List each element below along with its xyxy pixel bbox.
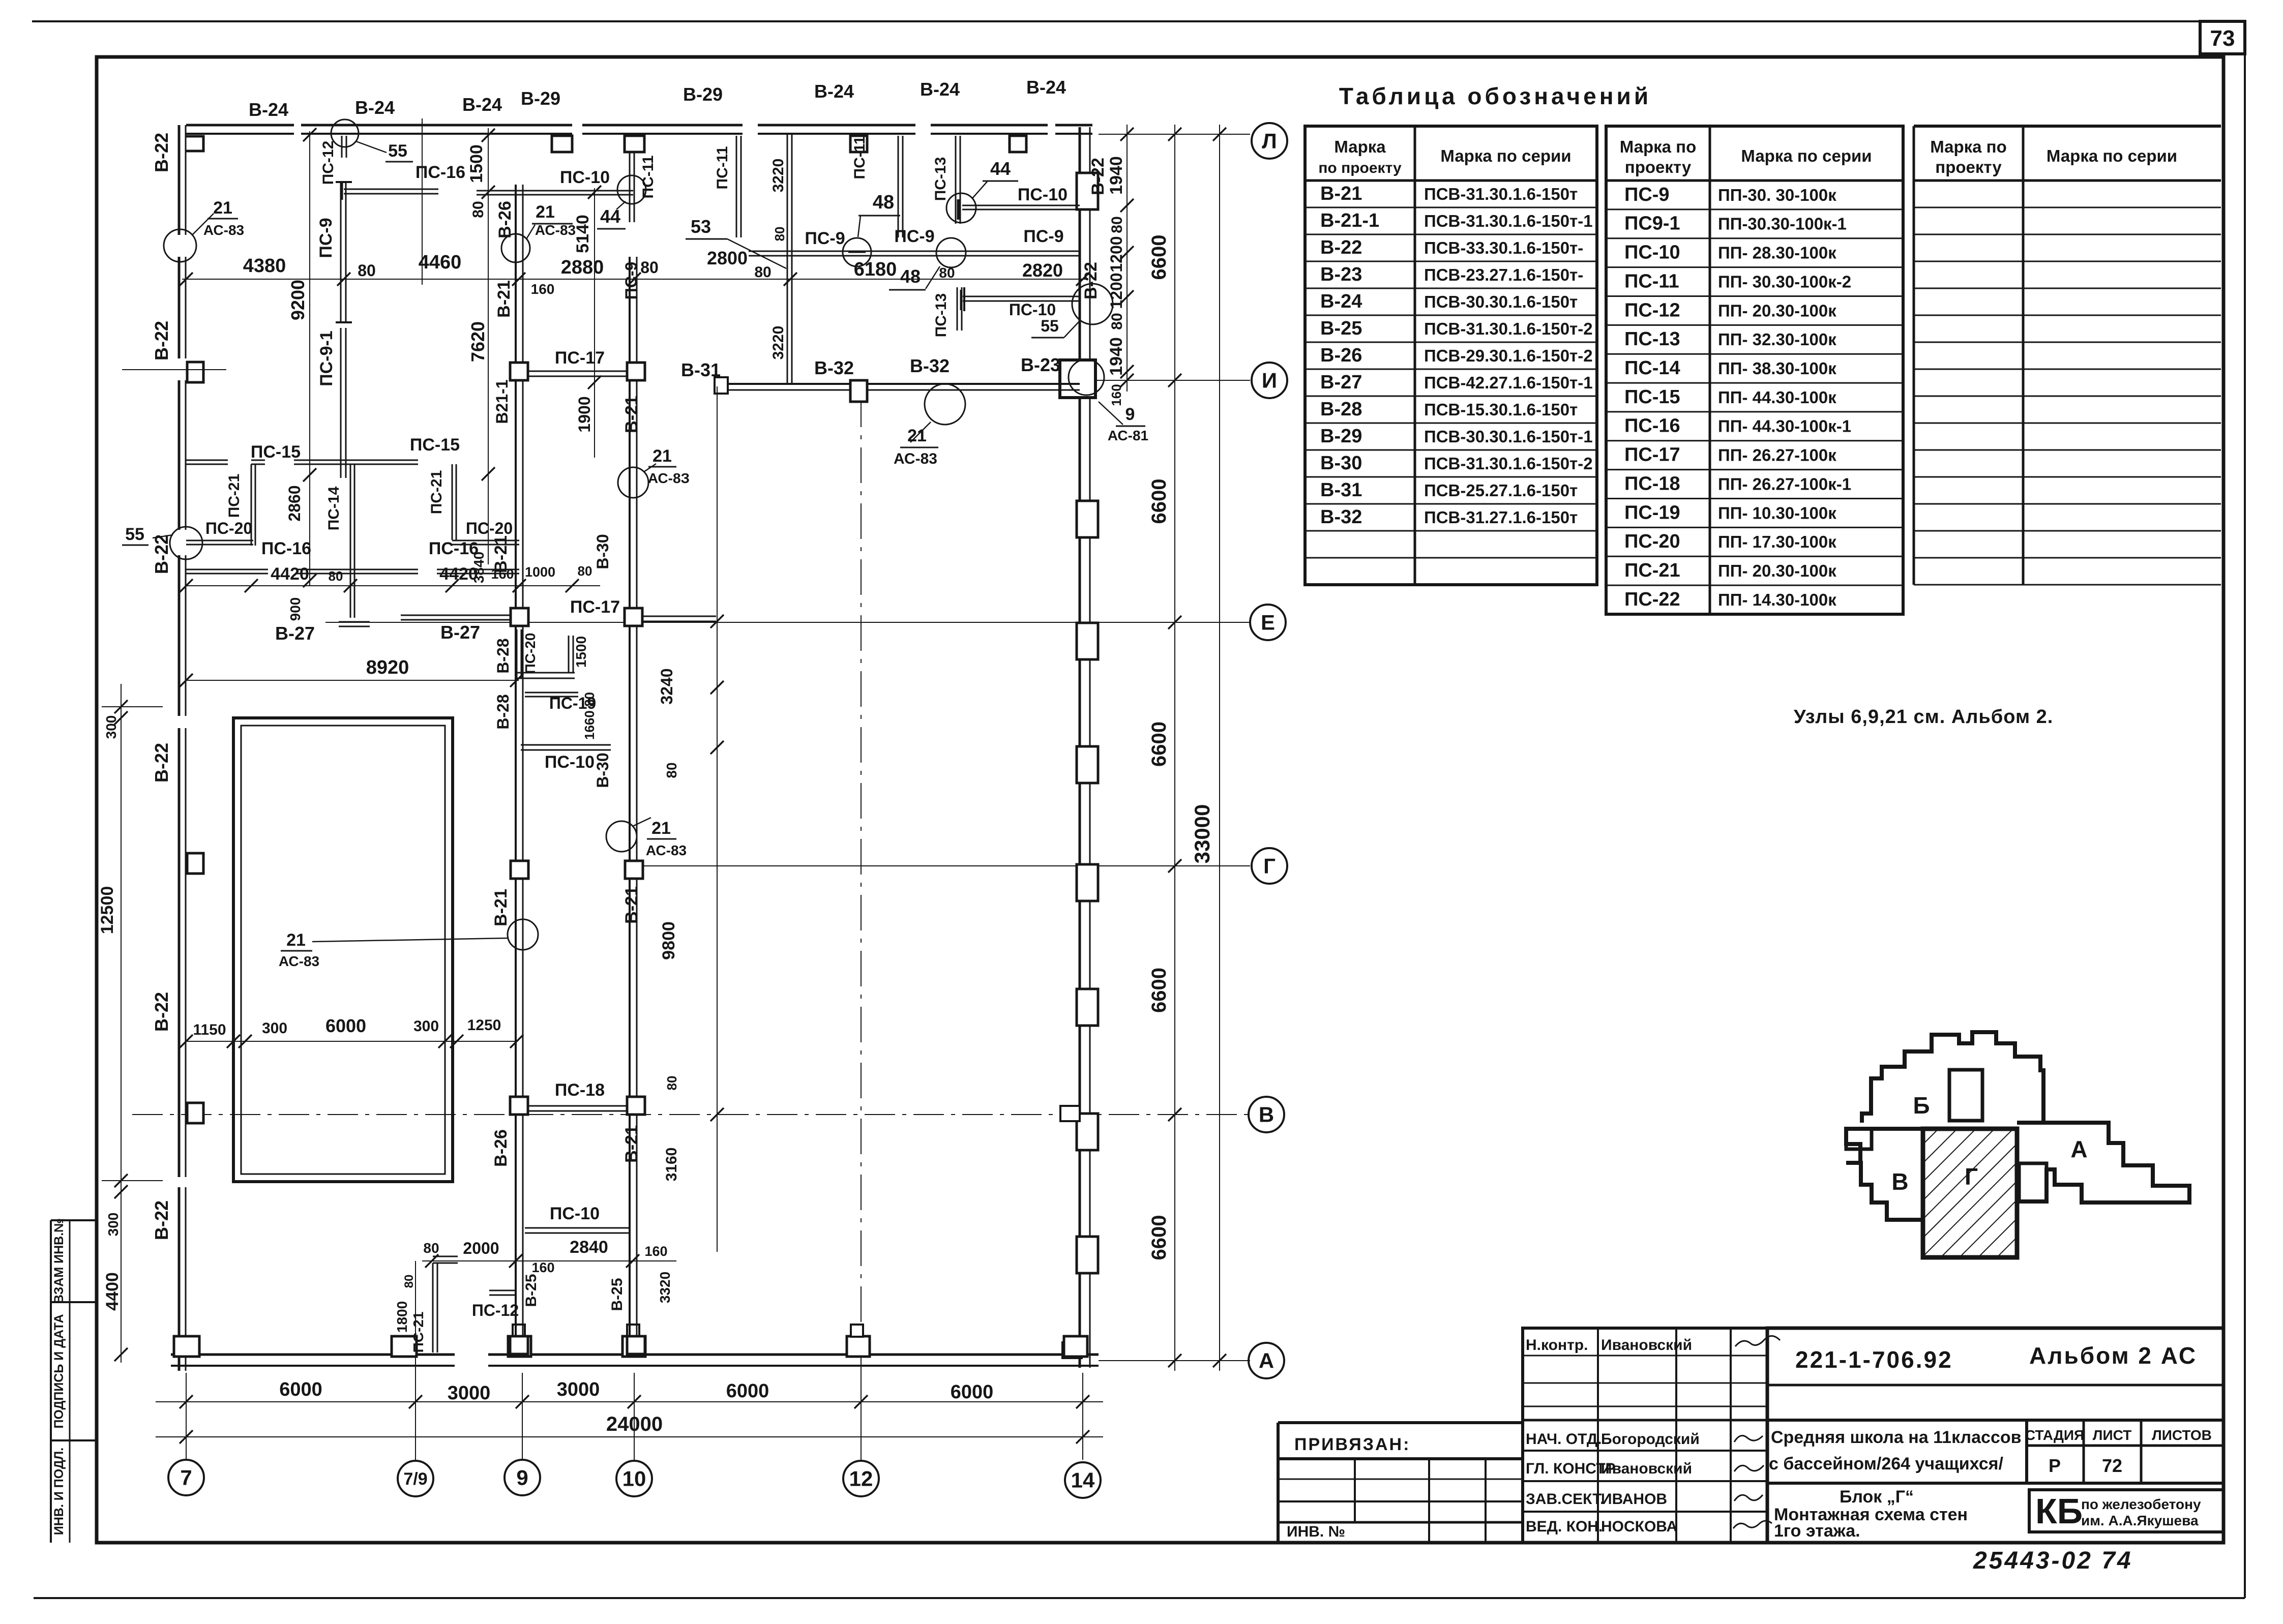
svg-text:В-22: В-22: [151, 1200, 172, 1240]
axis line V: [132, 1114, 1250, 1115]
svg-text:900: 900: [287, 597, 303, 621]
svg-text:ПСВ-33.30.1.6-150т-: ПСВ-33.30.1.6-150т-: [1424, 238, 1583, 257]
svg-text:ПП-30. 30-100к: ПП-30. 30-100к: [1718, 186, 1836, 204]
svg-text:24000: 24000: [606, 1413, 663, 1435]
pier interior: [627, 1097, 645, 1115]
pier on right wall: [1077, 501, 1098, 537]
svg-text:1800: 1800: [394, 1301, 410, 1333]
svg-text:А: А: [1259, 1349, 1274, 1373]
svg-text:ПСВ-29.30.1.6-150т-2: ПСВ-29.30.1.6-150т-2: [1424, 346, 1593, 365]
pier interior: [625, 861, 643, 879]
svg-text:АС-81: АС-81: [1108, 428, 1148, 443]
svg-text:ПП-30.30-100к-1: ПП-30.30-100к-1: [1718, 215, 1847, 233]
1500/7620 dim x=960: [488, 128, 489, 564]
svg-text:ПСВ-31.30.1.6-150т: ПСВ-31.30.1.6-150т: [1424, 185, 1578, 203]
svg-text:80: 80: [664, 762, 679, 778]
svg-text:4420: 4420: [271, 564, 309, 584]
pier under top wall: [1010, 136, 1026, 152]
detail circle 48 a: [843, 238, 871, 266]
svg-text:В-21: В-21: [491, 889, 511, 926]
PS-16 lintel top: [344, 189, 438, 190]
svg-text:300: 300: [262, 1020, 287, 1037]
svg-text:2860: 2860: [285, 485, 304, 521]
svg-text:Г: Г: [1965, 1163, 1978, 1190]
svg-text:В-22: В-22: [151, 534, 172, 574]
svg-text:ПСВ-31.30.1.6-150т-1: ПСВ-31.30.1.6-150т-1: [1424, 212, 1593, 230]
svg-text:В-21: В-21: [622, 1125, 641, 1163]
svg-text:80: 80: [1109, 216, 1125, 233]
wall B-31/B-32/B-23 on axis I: [715, 383, 1080, 385]
lintel PS-17 at I: [528, 371, 627, 372]
lintel PS-10 low: [525, 1227, 631, 1229]
svg-text:Л: Л: [1262, 129, 1277, 153]
svg-text:ПС-15: ПС-15: [410, 435, 460, 455]
bottom dim line 6000s: [156, 1401, 1103, 1402]
PS-11 stubs: [736, 136, 737, 237]
svg-text:В-28: В-28: [494, 694, 512, 729]
outer border bottom: [34, 1597, 2245, 1599]
pier on right wall: [1077, 989, 1098, 1026]
svg-text:12500: 12500: [98, 886, 117, 935]
svg-text:48: 48: [873, 192, 894, 213]
svg-text:1200: 1200: [1107, 236, 1125, 272]
svg-text:по проекту: по проекту: [1318, 160, 1402, 176]
svg-text:ПС-10: ПС-10: [1018, 185, 1068, 204]
svg-text:В-21-1: В-21-1: [1320, 210, 1379, 231]
PS-9 wall: [340, 182, 342, 322]
PS-16 lintels row 2: [186, 569, 268, 570]
svg-text:80: 80: [772, 227, 787, 242]
svg-text:ПС-13: ПС-13: [933, 293, 950, 338]
big pier right wall at I: [1060, 360, 1095, 398]
svg-text:ПС-12: ПС-12: [472, 1301, 519, 1319]
svg-text:9: 9: [516, 1466, 528, 1490]
axis line 7/9 vert: [415, 1261, 416, 1373]
svg-text:В-25: В-25: [1320, 318, 1362, 339]
svg-text:7: 7: [180, 1466, 192, 1490]
axis circle G: [1252, 848, 1287, 884]
svg-text:В-24: В-24: [814, 81, 854, 102]
svg-text:ПС-10: ПС-10: [550, 1204, 600, 1223]
svg-text:В-21: В-21: [622, 396, 641, 433]
svg-text:ПС-9: ПС-9: [1624, 184, 1670, 205]
axis leader lines bottom: [186, 1373, 187, 1460]
svg-text:В-26: В-26: [491, 1129, 511, 1167]
svg-text:ИНВ. №: ИНВ. №: [1287, 1523, 1345, 1540]
svg-text:СТАДИЯ: СТАДИЯ: [2025, 1427, 2084, 1443]
svg-text:1940: 1940: [1107, 337, 1126, 376]
corner pier top-left: [186, 136, 203, 151]
pier under top wall: [552, 136, 572, 152]
svg-text:ПС-13: ПС-13: [1624, 328, 1680, 350]
svg-text:Ивановский: Ивановский: [1601, 1337, 1692, 1354]
svg-text:В-24: В-24: [1320, 291, 1362, 312]
svg-text:Узлы 6,9,21 см. Альбом 2.: Узлы 6,9,21 см. Альбом 2.: [1794, 706, 2053, 728]
svg-text:ПС-12: ПС-12: [1624, 299, 1680, 321]
svg-text:В-24: В-24: [462, 94, 502, 115]
svg-text:44: 44: [990, 158, 1011, 179]
svg-text:160: 160: [531, 281, 555, 297]
svg-text:В-25: В-25: [523, 1274, 540, 1307]
svg-text:2840: 2840: [570, 1238, 608, 1257]
detail circle 44: [946, 193, 976, 223]
svg-text:ПОДПИСЬ И ДАТА: ПОДПИСЬ И ДАТА: [52, 1314, 66, 1428]
stub right wall at V: [1060, 1106, 1080, 1121]
svg-text:ПС-20: ПС-20: [466, 519, 513, 537]
svg-text:ПС-21: ПС-21: [428, 470, 445, 515]
detail circle 55 top: [331, 119, 359, 147]
svg-text:АС-83: АС-83: [203, 222, 244, 238]
svg-text:ПС-17: ПС-17: [570, 597, 620, 617]
svg-text:5140: 5140: [573, 215, 592, 253]
55 circle on left wall: [170, 527, 202, 559]
designation table 3 (empty): [1913, 126, 1915, 585]
svg-text:В-22: В-22: [1320, 237, 1362, 258]
svg-text:ПС-9: ПС-9: [805, 229, 845, 248]
svg-text:Марка по серии: Марка по серии: [1741, 146, 1872, 165]
svg-text:ПС-18: ПС-18: [555, 1080, 605, 1100]
pier interior: [510, 1097, 528, 1115]
svg-text:ПП- 30.30-100к-2: ПП- 30.30-100к-2: [1718, 272, 1851, 291]
svg-text:ПС-10: ПС-10: [1624, 242, 1680, 263]
svg-text:В-21: В-21: [494, 280, 514, 318]
svg-text:ПС-16: ПС-16: [261, 539, 311, 558]
svg-text:ПП- 17.30-100к: ПП- 17.30-100к: [1718, 532, 1836, 551]
dim line 4420 row: [186, 585, 600, 586]
svg-text:6600: 6600: [1148, 235, 1170, 280]
svg-text:Таблица обозначений: Таблица обозначений: [1339, 83, 1651, 109]
top wall row (B-24/B-29): [186, 124, 294, 127]
right wall (B-22): [1079, 127, 1081, 1368]
pier on bottom wall: [392, 1336, 417, 1357]
svg-text:21: 21: [536, 202, 555, 222]
svg-text:В-28: В-28: [1320, 399, 1362, 420]
svg-text:ПС-19: ПС-19: [1624, 502, 1680, 523]
svg-text:АС-8З: АС-8З: [648, 470, 690, 486]
svg-text:ИВАНОВ: ИВАНОВ: [1601, 1491, 1667, 1508]
axis 10 wall: [629, 257, 631, 1352]
svg-text:3220: 3220: [770, 326, 787, 360]
svg-text:ПС-16: ПС-16: [416, 163, 465, 182]
svg-text:ПС-16: ПС-16: [1624, 415, 1680, 437]
dim 3240 x=1410: [717, 386, 718, 1252]
svg-text:ПС-17: ПС-17: [555, 348, 605, 368]
AC-83 circle axis10 y1645: [606, 821, 637, 852]
stub at PS-12: [489, 1290, 516, 1291]
svg-text:проекту: проекту: [1935, 158, 2002, 176]
svg-text:72: 72: [2102, 1455, 2122, 1476]
svg-text:221-1-706.92: 221-1-706.92: [1795, 1346, 1953, 1373]
svg-text:33000: 33000: [1190, 804, 1214, 864]
pier interior: [511, 861, 528, 879]
svg-text:21: 21: [907, 426, 927, 445]
vertical partition x=1554: [787, 135, 788, 384]
svg-text:12: 12: [849, 1467, 873, 1491]
svg-text:АС-83: АС-83: [894, 450, 937, 467]
svg-text:В-26: В-26: [495, 201, 515, 238]
svg-text:ПРИВЯЗАН:: ПРИВЯЗАН:: [1294, 1435, 1410, 1454]
svg-text:ПП- 44.30-100к: ПП- 44.30-100к: [1718, 388, 1836, 407]
detail circle 55 right wall: [1072, 284, 1113, 324]
svg-text:с бассейном/264 учащихся/: с бассейном/264 учащихся/: [1769, 1454, 2003, 1473]
svg-text:ПС-12: ПС-12: [320, 141, 337, 185]
PS-12 stub: [341, 136, 343, 158]
svg-text:В-23: В-23: [1320, 264, 1362, 285]
svg-text:44: 44: [600, 206, 620, 227]
pier on right wall: [1077, 1114, 1098, 1150]
svg-text:1500: 1500: [467, 144, 486, 183]
svg-text:НАЧ. ОТД.: НАЧ. ОТД.: [1526, 1431, 1602, 1448]
svg-text:В-21: В-21: [622, 886, 641, 924]
svg-text:В-27: В-27: [440, 622, 480, 643]
axis circle 7/9: [398, 1461, 433, 1496]
lintel PS-18: [528, 1105, 627, 1107]
AC-83 circle left wall: [164, 229, 196, 262]
svg-text:9800: 9800: [659, 921, 678, 960]
svg-text:В-22: В-22: [1088, 158, 1108, 195]
axis circle 14: [1065, 1462, 1101, 1498]
svg-text:ПС-11: ПС-11: [640, 156, 657, 199]
svg-text:ПС-9: ПС-9: [1023, 227, 1063, 246]
pier on bottom wall: [1064, 1336, 1087, 1357]
svg-text:300: 300: [413, 1018, 439, 1035]
svg-text:ПСВ-23.27.1.6-150т-: ПСВ-23.27.1.6-150т-: [1424, 265, 1583, 284]
svg-text:проекту: проекту: [1625, 158, 1692, 176]
axis circle V: [1249, 1097, 1284, 1132]
svg-text:ПС-15: ПС-15: [1624, 386, 1680, 408]
axis circle 9: [505, 1460, 540, 1495]
svg-text:2880: 2880: [561, 257, 604, 278]
svg-text:В-27: В-27: [1320, 372, 1362, 393]
axis 9 wall: [515, 185, 517, 1352]
svg-text:6600: 6600: [1148, 968, 1170, 1013]
pier under top wall: [850, 136, 867, 152]
svg-text:3000: 3000: [557, 1379, 600, 1400]
pier on left wall: [187, 1103, 203, 1123]
svg-text:6600: 6600: [1148, 479, 1170, 524]
svg-text:ПП- 44.30-100к-1: ПП- 44.30-100к-1: [1718, 417, 1851, 436]
svg-text:ПС-11: ПС-11: [851, 136, 868, 179]
axis circle 10: [616, 1461, 652, 1496]
designation table 2: [1606, 126, 1903, 614]
svg-text:ПС-21: ПС-21: [1624, 560, 1680, 581]
key plan block V (left): [1846, 1129, 1923, 1220]
svg-text:ПСВ-30.30.1.6-150т-1: ПСВ-30.30.1.6-150т-1: [1424, 427, 1593, 446]
pier on right wall: [1077, 173, 1098, 209]
svg-text:160: 160: [1109, 384, 1124, 406]
detail circle 48 b: [936, 238, 966, 267]
svg-text:ПС-15: ПС-15: [251, 442, 301, 462]
svg-text:6000: 6000: [325, 1015, 366, 1036]
svg-text:25443-02 74: 25443-02 74: [1973, 1547, 2133, 1574]
svg-text:3320: 3320: [657, 1272, 673, 1303]
lintel PS-10 mid: [521, 744, 611, 746]
axis circle 12: [843, 1461, 879, 1496]
svg-text:ПС-18: ПС-18: [1624, 473, 1680, 494]
svg-text:10: 10: [622, 1467, 646, 1491]
left wall (axis 7, B-22): [178, 125, 181, 235]
svg-text:ЛИСТ: ЛИСТ: [2093, 1427, 2131, 1443]
axis line G: [640, 865, 1250, 866]
svg-text:80: 80: [358, 261, 376, 280]
axis circle A: [1249, 1343, 1284, 1378]
svg-text:ПС-10: ПС-10: [1009, 300, 1056, 319]
svg-text:ПСВ-31.30.1.6-150т-2: ПСВ-31.30.1.6-150т-2: [1424, 319, 1593, 338]
svg-text:53: 53: [691, 216, 711, 237]
PS-20 U-shape below E: [516, 629, 518, 678]
svg-text:1250: 1250: [467, 1017, 501, 1034]
title block staff table: [1523, 1328, 1767, 1543]
svg-text:Марка по серии: Марка по серии: [2047, 146, 2177, 165]
detail circle at I-right corner: [1069, 359, 1104, 395]
designation table 1: [1305, 126, 1597, 585]
pier interior: [627, 363, 645, 380]
axis line A: [1099, 1360, 1250, 1361]
svg-text:160: 160: [531, 1260, 554, 1275]
9200 dim: [309, 131, 310, 586]
svg-text:им. А.А.Якушева: им. А.А.Якушева: [2081, 1513, 2199, 1528]
svg-text:Альбом 2 АС: Альбом 2 АС: [2029, 1342, 2197, 1369]
svg-text:7620: 7620: [467, 321, 488, 362]
svg-text:ПС9-1: ПС9-1: [1624, 213, 1680, 234]
svg-text:ПС-13: ПС-13: [932, 157, 949, 201]
svg-text:ПС-22: ПС-22: [1624, 589, 1680, 610]
svg-text:В-22: В-22: [1081, 262, 1101, 299]
PS-10 lintel right: [962, 205, 1080, 206]
svg-text:21: 21: [653, 446, 672, 466]
svg-text:1000: 1000: [525, 564, 555, 580]
svg-text:300: 300: [105, 1213, 121, 1237]
svg-text:80: 80: [664, 1076, 679, 1091]
PS-15 lintel row: [186, 460, 228, 461]
svg-text:ПП- 20.30-100к: ПП- 20.30-100к: [1718, 301, 1836, 320]
svg-text:В-25: В-25: [609, 1278, 626, 1311]
svg-text:Марка по: Марка по: [1620, 137, 1697, 156]
svg-text:160: 160: [491, 566, 514, 582]
svg-text:21: 21: [651, 819, 671, 838]
right chain 6600: [1174, 125, 1175, 1371]
svg-text:В-29: В-29: [521, 88, 560, 109]
left attachment strip: [50, 1220, 52, 1543]
pier interior: [511, 608, 528, 626]
AC-83 circle axis9 y1835: [508, 919, 538, 950]
svg-text:ПП- 26.27-100к: ПП- 26.27-100к: [1718, 446, 1836, 465]
svg-text:В-22: В-22: [151, 321, 172, 360]
stub right wall at A: [1062, 1342, 1082, 1358]
5140 dim x=1169: [594, 188, 595, 458]
svg-text:ПС-17: ПС-17: [1624, 444, 1680, 466]
svg-text:ПС-20: ПС-20: [522, 633, 538, 674]
svg-text:21: 21: [286, 930, 306, 950]
B-27 walls: [339, 621, 370, 623]
svg-text:6000: 6000: [951, 1381, 994, 1403]
svg-text:ПСВ-15.30.1.6-150т: ПСВ-15.30.1.6-150т: [1424, 400, 1578, 419]
svg-text:8920: 8920: [366, 657, 409, 678]
svg-text:ПС-14: ПС-14: [1624, 357, 1680, 379]
PS-10 lintel right lower: [963, 296, 1080, 297]
svg-text:6000: 6000: [279, 1379, 322, 1400]
sheet number box: [2200, 21, 2245, 54]
privyazan box: [1277, 1423, 1280, 1543]
svg-text:ПС-9-1: ПС-9-1: [317, 330, 336, 386]
pier on bottom wall: [622, 1336, 645, 1357]
axis circle I: [1252, 363, 1287, 398]
pool bottom dims 1150/300/6000/300/1250: [186, 1041, 517, 1042]
svg-text:ВЕД. КОН.: ВЕД. КОН.: [1526, 1518, 1603, 1535]
svg-text:2820: 2820: [1022, 260, 1063, 281]
svg-text:ПС-20: ПС-20: [205, 519, 252, 537]
PS-19 lintel: [525, 692, 578, 694]
PS-14 vertical: [350, 464, 351, 618]
svg-text:Е: Е: [1261, 611, 1275, 635]
svg-text:Блок „Г“: Блок „Г“: [1840, 1487, 1914, 1507]
svg-text:80: 80: [754, 264, 771, 281]
svg-text:В-22: В-22: [151, 133, 172, 172]
svg-text:Средняя школа на 11классов: Средняя школа на 11классов: [1771, 1428, 2022, 1447]
svg-text:6000: 6000: [726, 1380, 769, 1402]
title block main: [1767, 1328, 2223, 1543]
pier on bottom wall: [174, 1336, 199, 1357]
svg-text:В-28: В-28: [494, 638, 512, 673]
svg-text:3220: 3220: [770, 159, 787, 193]
svg-text:4420: 4420: [439, 564, 478, 584]
svg-text:ПС-14: ПС-14: [325, 486, 342, 530]
svg-text:В21-1: В21-1: [493, 379, 511, 424]
svg-text:1900: 1900: [575, 396, 594, 432]
svg-text:ПС-20: ПС-20: [1624, 531, 1680, 552]
pier on bottom wall: [508, 1336, 531, 1357]
svg-text:В-31: В-31: [681, 359, 721, 380]
svg-text:Марка по серии: Марка по серии: [1440, 146, 1571, 165]
svg-text:В-21: В-21: [1320, 183, 1362, 204]
svg-text:9200: 9200: [287, 280, 308, 320]
svg-text:ПС-21: ПС-21: [410, 1312, 426, 1353]
svg-text:В-22: В-22: [151, 992, 172, 1032]
svg-text:Ивановский: Ивановский: [1601, 1460, 1692, 1477]
signatures: [1735, 1336, 1780, 1346]
axis I stub at left wall: [122, 369, 226, 370]
svg-text:И: И: [1262, 369, 1277, 393]
pier interior: [510, 1336, 528, 1354]
svg-text:ПС-9: ПС-9: [622, 262, 640, 300]
svg-text:80: 80: [578, 563, 592, 579]
axis line I: [1093, 380, 1250, 381]
svg-text:Марка: Марка: [1334, 137, 1386, 156]
pier on left wall: [187, 853, 203, 874]
lintel PS-17 at E: [643, 616, 716, 617]
svg-text:КБ: КБ: [2035, 1491, 2083, 1531]
axis line L: [1099, 134, 1250, 135]
svg-text:ПСВ-30.30.1.6-150т: ПСВ-30.30.1.6-150т: [1424, 292, 1578, 311]
bottom wall row (A axis): [171, 1354, 455, 1356]
pool basin: [233, 718, 453, 1182]
svg-text:14: 14: [1071, 1468, 1095, 1492]
dim 80 2000 2840 160: [422, 1260, 676, 1261]
svg-text:В-23: В-23: [1021, 354, 1060, 375]
svg-text:ПП- 14.30-100к: ПП- 14.30-100к: [1718, 590, 1836, 609]
svg-text:ПП- 20.30-100к: ПП- 20.30-100к: [1718, 561, 1836, 580]
svg-text:80: 80: [1109, 313, 1125, 329]
svg-text:В-24: В-24: [355, 97, 395, 118]
svg-text:В-32: В-32: [1320, 506, 1362, 528]
svg-text:4380: 4380: [243, 255, 286, 277]
pier on right wall: [1077, 864, 1098, 901]
pier on right wall: [1077, 746, 1098, 783]
svg-text:ПС-10: ПС-10: [545, 753, 595, 772]
key plan block A (right): [2017, 1123, 2189, 1202]
svg-text:Марка по: Марка по: [1930, 137, 2007, 156]
svg-text:ПСВ-31.27.1.6-150т: ПСВ-31.27.1.6-150т: [1424, 508, 1578, 527]
